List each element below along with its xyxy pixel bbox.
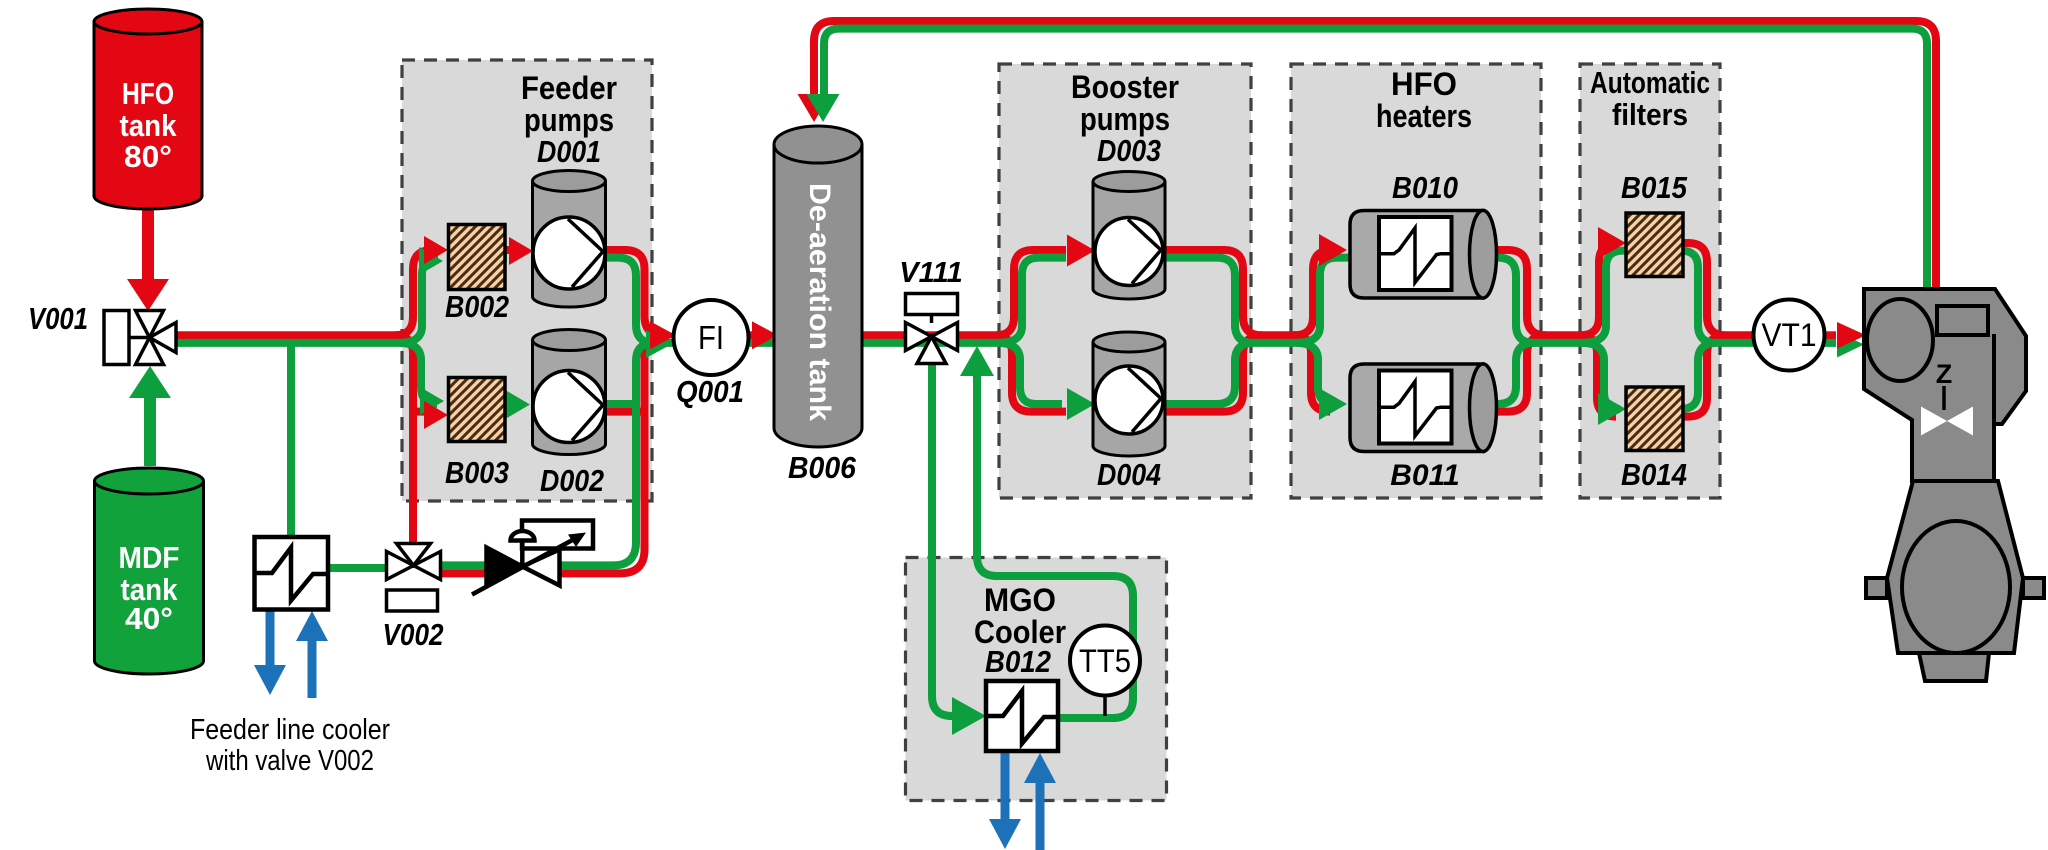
filter B014 — [1626, 387, 1683, 451]
booster pumps box — [999, 64, 1251, 498]
svg-text:Feeder: Feeder — [521, 70, 617, 106]
svg-text:VT1: VT1 — [1762, 317, 1817, 353]
valve V111 — [906, 294, 958, 364]
wire green booster top branch in — [998, 258, 1066, 343]
control valve with actuator — [472, 521, 593, 595]
wire green V001 to feeder fork — [168, 339, 402, 347]
svg-text:with valve V002: with valve V002 — [205, 745, 374, 777]
svg-text:D003: D003 — [1097, 133, 1161, 168]
svg-text:B010: B010 — [1392, 170, 1458, 205]
svg-text:D004: D004 — [1097, 457, 1161, 492]
svg-text:V111: V111 — [899, 257, 962, 289]
wire green D001 out to FI — [600, 258, 654, 343]
wire green engine return line — [824, 29, 1927, 290]
wire green FI to booster fork (behind tank and V111) — [656, 339, 1004, 347]
arrow green MGO loop into main line — [960, 346, 994, 376]
svg-text:HFO: HFO — [122, 76, 174, 111]
GROUP: dashed boxes — [402, 60, 1720, 801]
filter B002 — [449, 225, 506, 290]
svg-text:V002: V002 — [383, 617, 444, 652]
svg-text:filters: filters — [1612, 97, 1688, 132]
arrow blue cooler water out (down) — [266, 611, 275, 667]
svg-text:D001: D001 — [537, 134, 601, 169]
svg-text:Feeder line cooler: Feeder line cooler — [190, 714, 390, 746]
feeder line cooler heat exchanger — [255, 537, 329, 610]
wire green MGO cooler out loop back up — [977, 373, 1133, 718]
wire red D004 out — [1161, 335, 1262, 411]
wire green heater top branch in — [1296, 258, 1352, 343]
wire green D004 out — [1161, 343, 1253, 404]
wire red heater bottom branch in — [1294, 335, 1330, 411]
arrow green into B014 — [1598, 393, 1626, 425]
wire green D002 out to right vertical — [600, 400, 636, 408]
svg-text:B012: B012 — [985, 644, 1051, 679]
wire green filter bottom branch in — [1582, 343, 1620, 409]
arrow green into B011 — [1319, 388, 1347, 420]
flow indicator FI / Q001 — [674, 300, 749, 375]
wire green filter top branch in — [1582, 251, 1628, 343]
svg-text:B002: B002 — [445, 289, 509, 324]
arrow green return into tank (over red) — [807, 94, 840, 122]
arrow green into B002 — [419, 247, 443, 275]
svg-text:HFO: HFO — [1391, 66, 1457, 102]
svg-text:40°: 40° — [125, 601, 173, 636]
wire green V111 down to MGO cooler — [932, 362, 958, 716]
valve V001 — [104, 311, 176, 365]
arrow blue MGO cooler water in (up) — [1036, 783, 1045, 850]
wire green behind B003 to D002 — [503, 400, 507, 408]
svg-text:Z: Z — [1936, 359, 1953, 389]
wire green D003 out — [1161, 258, 1302, 343]
engine lower body — [1866, 481, 2044, 681]
wire green feeder bottom branch in — [399, 343, 437, 404]
wire green behind B002 to D001 — [503, 254, 507, 262]
pump D001 — [533, 171, 606, 308]
engine internal valve symbol — [1921, 359, 1973, 436]
MGO cooler box — [906, 558, 1167, 801]
arrow red into engine — [1837, 322, 1866, 349]
wire red B015 out — [1681, 243, 1758, 335]
GROUP: arrowheads — [127, 94, 1866, 735]
GROUP: red pipes — [148, 21, 1936, 573]
wire green heater bottom branch in — [1296, 343, 1334, 404]
wire red feeder top branch in — [395, 250, 432, 335]
MDF tank — [95, 468, 204, 674]
GROUP: blue arrows — [254, 611, 1056, 850]
wire green VT1 to engine — [1822, 339, 1836, 347]
wire red filter bottom branch in — [1580, 335, 1616, 416]
arrow red feeder bottom branch — [424, 401, 448, 429]
svg-text:B003: B003 — [445, 455, 509, 490]
arrow red into B010 — [1319, 234, 1347, 266]
svg-text:De-aeration tank: De-aeration tank — [803, 183, 836, 421]
wire red feeder bottom branch arrowtail — [413, 408, 426, 416]
wire red B011 out — [1494, 335, 1546, 411]
temperature transmitter TT5 — [1070, 626, 1140, 717]
wire green branch down to feeder line cooler — [287, 345, 295, 535]
wire green B011 out — [1494, 343, 1534, 404]
arrow green into B003 — [420, 387, 444, 415]
arrow green into D004 — [1067, 388, 1095, 420]
arrow red into de-aeration tank — [752, 321, 778, 349]
GROUP: labels — [28, 65, 1817, 777]
arrow green into engine — [1837, 332, 1864, 358]
arrow green into MGO cooler HX — [952, 697, 986, 735]
viscosity transmitter VT1 — [1754, 300, 1825, 371]
svg-text:FI: FI — [698, 319, 724, 356]
svg-text:pumps: pumps — [524, 102, 614, 138]
wire red engine return line — [814, 21, 1936, 290]
svg-text:pumps: pumps — [1080, 101, 1170, 137]
wire green B010 out — [1494, 258, 1590, 343]
svg-text:B006: B006 — [788, 450, 857, 485]
svg-text:Automatic: Automatic — [1590, 65, 1710, 100]
filter B015 — [1626, 213, 1683, 277]
de-aeration tank B006 — [774, 126, 862, 447]
wire red FI to de-aeration tank — [746, 331, 755, 339]
filter B003 — [449, 378, 506, 442]
arrow red return into tank — [798, 94, 831, 122]
wire green MDF tank feed — [144, 394, 156, 466]
arrow blue cooler water in (up) — [308, 638, 317, 698]
GROUP: green pipes — [150, 29, 1927, 718]
wire green feeder top branch in — [399, 258, 438, 343]
feeder pumps box — [402, 60, 652, 501]
pump D002 — [533, 330, 606, 455]
MGO cooler heat exchanger B012 — [986, 681, 1058, 751]
automatic filters box — [1580, 64, 1720, 498]
arrow green into FI — [646, 330, 672, 358]
wire red V002 bypass up to FI — [438, 335, 664, 573]
wire green B015 out — [1681, 251, 1758, 343]
wire red feeder bottom branch + drop to V002 — [395, 335, 413, 543]
arrow blue MGO cooler water out (down) — [1001, 752, 1010, 820]
svg-text:B011: B011 — [1390, 459, 1460, 492]
svg-text:heaters: heaters — [1376, 98, 1472, 134]
wire red booster bottom branch in — [996, 335, 1066, 411]
wire red VT1 to engine — [1822, 331, 1836, 339]
wire red D001 out to FI — [600, 250, 664, 335]
wire green B014 out — [1681, 343, 1716, 409]
wire red HFO tank feed — [142, 207, 154, 283]
svg-text:Booster: Booster — [1071, 69, 1179, 105]
wire red tank to booster fork — [860, 331, 1004, 339]
svg-text:MGO: MGO — [984, 582, 1056, 618]
HFO tank — [94, 9, 202, 209]
arrow red HFO tank to V001 — [127, 279, 169, 311]
arrow red into D003 — [1067, 235, 1095, 267]
arrow red into B002 — [424, 236, 448, 264]
HFO heaters box — [1291, 64, 1541, 498]
wire red D002 out to right vertical — [600, 408, 645, 416]
arrow green into D002 — [506, 391, 530, 419]
arrow red into B015 — [1598, 227, 1626, 259]
arrow green MDF tank to V001 — [129, 366, 171, 398]
svg-text:V001: V001 — [28, 301, 88, 336]
wire green booster bottom branch in — [998, 343, 1062, 404]
arrow red into D001 — [509, 237, 533, 265]
wire red V001 to feeder fork — [172, 331, 400, 339]
svg-text:Q001: Q001 — [676, 374, 744, 409]
svg-text:TT5: TT5 — [1079, 643, 1131, 679]
wire red B014 out — [1681, 335, 1726, 416]
wire green cooler to V002 — [328, 564, 392, 572]
wire red heater top branch in — [1294, 250, 1332, 335]
engine upper block — [1864, 289, 2026, 481]
wire red filter top branch in — [1580, 243, 1618, 335]
wire green V002 bypass up to FI — [436, 343, 654, 566]
valve V002 — [387, 544, 441, 612]
svg-text:tank: tank — [120, 108, 178, 143]
pump D003 — [1093, 172, 1165, 300]
heater B010 — [1350, 210, 1497, 298]
svg-text:80°: 80° — [124, 139, 172, 174]
svg-text:B015: B015 — [1621, 170, 1688, 205]
wire red behind B002 to D001 — [503, 246, 510, 254]
wire red behind B003 to D002 — [503, 408, 510, 416]
wire red B010 out — [1494, 250, 1590, 335]
svg-text:D002: D002 — [540, 463, 604, 498]
wire red booster top branch in — [996, 250, 1066, 335]
wire red D003 out — [1161, 250, 1302, 335]
heater B011 — [1350, 364, 1497, 452]
svg-text:MDF: MDF — [119, 540, 180, 575]
arrow red into FI — [650, 321, 676, 349]
svg-text:B014: B014 — [1621, 457, 1687, 492]
pump D004 — [1093, 332, 1165, 456]
